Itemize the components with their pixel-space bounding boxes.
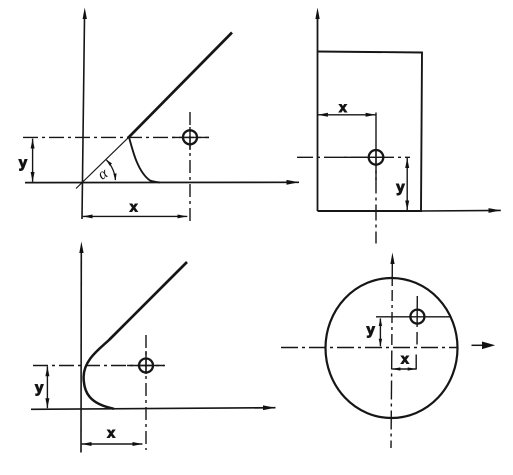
x dimension line top-left bbox=[83, 215, 188, 217]
y dimension line top-left bbox=[32, 139, 34, 182]
horizontal centerline through hole bottom-left bbox=[33, 365, 165, 367]
centerline solid dash across hole bottom-left vertical bbox=[145, 351, 147, 374]
thin construction line through origin top-left bbox=[76, 136, 130, 189]
vertical centerline through hole top-left bbox=[189, 112, 191, 221]
rounded corner curve bottom-left bbox=[84, 339, 114, 409]
horizontal centerline bottom-right bbox=[281, 347, 458, 349]
vertical axis arrowhead bottom-left bbox=[79, 242, 83, 254]
rectangle outline top-right bbox=[318, 52, 423, 212]
svg-text:y: y bbox=[19, 155, 28, 172]
vertical axis arrowhead top-right bbox=[315, 8, 319, 20]
y dimension line bottom-right bbox=[379, 318, 381, 346]
centerline solid dash across hole top-left vertical bbox=[189, 127, 191, 150]
large circle bottom-right bbox=[326, 278, 458, 418]
vertical centerline through hole bottom-left bbox=[145, 335, 147, 450]
angle arc arrowhead lower bbox=[113, 173, 116, 180]
horizontal axis bottom of rectangle with arrow bbox=[421, 209, 501, 212]
vertical extension to x dimension bottom-right bbox=[415, 355, 417, 370]
vertical axis top-right bbox=[317, 18, 319, 211]
x dimension line top-right bbox=[318, 114, 376, 116]
hole circle top-left bbox=[183, 130, 197, 144]
right direction arrowhead bottom-right bbox=[482, 342, 495, 350]
y dimension lower arrowhead bottom-right bbox=[379, 339, 382, 347]
x dimension line bottom-right bbox=[392, 368, 416, 370]
angle arc alpha bbox=[106, 160, 115, 180]
hole circle bottom-right bbox=[410, 310, 424, 324]
centerline solid dash across hole top-right horizontal bbox=[340, 156, 385, 158]
horizontal line through hole bottom-right bbox=[376, 316, 450, 318]
svg-text:y: y bbox=[35, 380, 44, 397]
angle arc arrowhead upper bbox=[106, 159, 112, 165]
y dimension line bottom-left bbox=[46, 366, 48, 408]
svg-text:x: x bbox=[107, 424, 115, 440]
svg-text:x: x bbox=[339, 99, 347, 115]
svg-text:x: x bbox=[401, 351, 409, 367]
right direction arrow bottom-right bbox=[472, 344, 485, 346]
horizontal baseline axis top-left with right arrow bbox=[25, 181, 299, 183]
horizontal centerline through hole top-left bbox=[23, 136, 209, 138]
svg-text:α: α bbox=[95, 164, 112, 183]
vertical centerline below hole top-right bbox=[375, 151, 377, 244]
vertical extension above hole top-right bbox=[375, 113, 377, 151]
thick angled edge top-left bbox=[128, 33, 232, 139]
vertical centerline bottom-right lower part bbox=[390, 351, 393, 449]
fillet curve top-left bbox=[129, 137, 160, 182]
x dimension left arrowhead bottom-right bbox=[392, 367, 401, 370]
svg-text:x: x bbox=[130, 199, 138, 215]
vertical centerline arrowhead bottom-right bbox=[390, 253, 394, 265]
centerline solid dash across hole top-right vertical bbox=[375, 151, 377, 181]
vertical centerline bottom-right upper part bbox=[391, 263, 393, 286]
y dimension upper arrowhead bottom-right bbox=[379, 318, 382, 326]
thick angled edge bottom-left bbox=[110, 262, 188, 340]
vertical axis top-left bbox=[82, 18, 85, 219]
hole circle top-right bbox=[369, 150, 384, 165]
x dimension line bottom-left bbox=[82, 443, 143, 445]
vertical axis bottom-left bbox=[80, 252, 82, 453]
svg-text:y: y bbox=[396, 179, 405, 196]
hole circle bottom-left bbox=[139, 359, 153, 373]
horizontal baseline axis bottom-left with right arrow bbox=[31, 408, 276, 410]
centerline solid dash across hole bottom-left horizontal bbox=[127, 365, 164, 367]
x dimension right arrowhead bottom-right bbox=[408, 367, 417, 370]
svg-text:y: y bbox=[367, 322, 376, 339]
horizontal centerline through hole top-right bbox=[297, 156, 410, 158]
y dimension line top-right bbox=[406, 158, 408, 210]
vertical centerline bottom-right upper dashed part bbox=[391, 290, 393, 348]
vertical axis arrowhead top-left bbox=[83, 8, 87, 20]
vertical centerline through hole bottom-right bbox=[416, 296, 418, 327]
vertical centerline dash below hole bottom-right bbox=[416, 332, 418, 345]
centerline solid dash across hole top-left horizontal bbox=[172, 136, 209, 138]
